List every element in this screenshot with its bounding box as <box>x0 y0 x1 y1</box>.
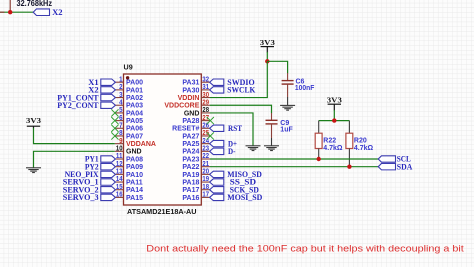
svg-text:23: 23 <box>202 146 209 153</box>
chip U9 pin-1 dot <box>126 76 129 79</box>
chip U9 body <box>124 74 202 205</box>
pin 30 (VDDIN) of U9 <box>178 92 210 102</box>
pin 18 (PA17) of U9 <box>182 184 210 194</box>
svg-text:PA18: PA18 <box>182 179 199 186</box>
port X1 <box>88 77 115 87</box>
svg-text:PA16: PA16 <box>182 195 199 202</box>
svg-text:8: 8 <box>119 130 123 137</box>
svg-text:5: 5 <box>119 107 123 114</box>
port SWCLK <box>210 85 256 95</box>
svg-text:SWCLK: SWCLK <box>227 85 255 95</box>
svg-text:VDDANA: VDDANA <box>126 141 156 148</box>
port SERVO_1 <box>63 177 116 187</box>
svg-text:PA30: PA30 <box>182 87 199 94</box>
svg-text:PA24: PA24 <box>182 149 199 156</box>
svg-text:2: 2 <box>119 84 123 91</box>
capacitor C9 <box>266 113 278 138</box>
svg-text:16: 16 <box>116 192 123 199</box>
svg-text:SERVO_3: SERVO_3 <box>63 192 99 202</box>
svg-text:VDDCORE: VDDCORE <box>164 103 199 110</box>
port SERVO_2 <box>63 184 116 194</box>
pin 1 (PA00) of U9 <box>115 76 143 86</box>
port SCL <box>378 154 411 164</box>
wire SDA (pin 21 PA22) <box>210 166 379 168</box>
wire GND pin 28 <box>210 113 253 141</box>
svg-text:32.768kHz: 32.768kHz <box>17 0 53 8</box>
svg-text:PA07: PA07 <box>126 133 143 140</box>
svg-text:PY2_CONT: PY2_CONT <box>57 100 99 110</box>
power port 3V3 (left) <box>26 116 41 126</box>
svg-text:PA22: PA22 <box>182 164 199 171</box>
svg-text:PA25: PA25 <box>182 141 199 148</box>
no-connect X pin 25 <box>207 132 214 139</box>
capacitor C6 <box>282 73 294 97</box>
wire 3V3 to C6 <box>267 61 287 73</box>
pin 15 (PA14) of U9 <box>115 184 143 194</box>
svg-text:X2: X2 <box>52 7 63 17</box>
svg-text:10: 10 <box>116 146 123 153</box>
port PY1 <box>85 154 116 164</box>
svg-text:Dont actually need the 100nF c: Dont actually need the 100nF cap but it … <box>146 244 464 255</box>
svg-text:PA00: PA00 <box>126 80 143 87</box>
svg-text:20: 20 <box>202 169 209 176</box>
svg-text:3: 3 <box>119 92 123 99</box>
crystal pin stub from left <box>0 11 5 13</box>
port MOSI_SD <box>210 192 263 202</box>
svg-text:U9: U9 <box>124 62 133 71</box>
svg-text:R20: R20 <box>354 138 367 145</box>
port RST <box>210 123 243 133</box>
svg-text:11: 11 <box>116 153 123 160</box>
svg-text:PA31: PA31 <box>182 80 199 87</box>
junction SCL/R22 <box>317 157 321 161</box>
wire 3V3 to VDDIN pin 30 <box>210 61 267 97</box>
pin 5 (PA04) of U9 <box>115 107 143 117</box>
pin 6 (PA05) of U9 <box>115 115 143 125</box>
power port 3V3 (middle) <box>260 38 275 47</box>
svg-text:24: 24 <box>202 138 209 145</box>
port SS_SD <box>210 177 256 187</box>
pin 29 (VDDCORE) of U9 <box>164 99 210 109</box>
svg-text:GND: GND <box>126 149 142 156</box>
pin 20 (PA19) of U9 <box>182 169 210 179</box>
port SWDIO <box>210 77 255 87</box>
svg-text:RST: RST <box>228 123 242 133</box>
pin 13 (PA10) of U9 <box>115 169 143 179</box>
junction SDA/R20 <box>347 164 351 168</box>
pin 17 (PA16) of U9 <box>182 192 210 202</box>
svg-text:PA03: PA03 <box>126 103 143 110</box>
resistor R20 <box>346 121 353 166</box>
junction 3V3/C6 <box>265 59 269 63</box>
svg-text:19: 19 <box>202 176 209 183</box>
svg-text:PA06: PA06 <box>126 126 143 133</box>
svg-text:26: 26 <box>202 122 209 129</box>
junction pullup rail <box>332 118 336 122</box>
wire SCL (pin 22 PA23) <box>210 158 379 160</box>
svg-text:4: 4 <box>119 99 123 106</box>
pin 9 (VDDANA) of U9 <box>115 138 156 148</box>
port X2 (top left) <box>33 7 62 17</box>
svg-text:PA04: PA04 <box>126 110 143 117</box>
pin 23 (PA24) of U9 <box>182 146 210 156</box>
no-connect X pin 8 <box>111 132 118 139</box>
svg-text:28: 28 <box>202 107 209 114</box>
ground (left) <box>26 163 41 173</box>
wire 3V3 to VDDANA <box>34 126 115 143</box>
pin 11 (PA08) of U9 <box>115 153 143 163</box>
pin 2 (PA01) of U9 <box>115 84 143 94</box>
svg-text:18: 18 <box>202 184 209 191</box>
wire 3V3 right stem <box>333 104 335 120</box>
ground (pin 28) <box>246 141 261 151</box>
svg-text:PA01: PA01 <box>126 87 143 94</box>
crystal Y pin (vertical lead) <box>9 0 11 12</box>
pin 19 (PA18) of U9 <box>182 176 210 186</box>
pin 27 (PA28) of U9 <box>182 115 210 125</box>
svg-text:PA27: PA27 <box>182 133 199 140</box>
svg-text:12: 12 <box>116 161 123 168</box>
svg-text:R22: R22 <box>323 138 336 145</box>
port SDA <box>378 161 413 171</box>
pin 10 (GND) of U9 <box>115 146 142 156</box>
pin 14 (PA11) of U9 <box>115 176 143 186</box>
port SCK_SD <box>210 184 259 194</box>
svg-text:PA02: PA02 <box>126 95 143 102</box>
svg-text:3V3: 3V3 <box>260 38 275 47</box>
wire pullup top rail <box>319 120 350 122</box>
pin 4 (PA03) of U9 <box>115 99 143 109</box>
svg-text:PA17: PA17 <box>182 187 199 194</box>
pin 25 (PA27) of U9 <box>182 130 210 140</box>
no-connect X pin 5 <box>111 109 118 116</box>
pin 22 (PA23) of U9 <box>182 153 210 163</box>
pin 24 (PA25) of U9 <box>182 138 210 148</box>
resistor R22 <box>315 121 322 158</box>
svg-text:RESET#: RESET# <box>172 126 199 133</box>
svg-text:PA19: PA19 <box>182 172 199 179</box>
svg-text:VDDIN: VDDIN <box>178 95 200 102</box>
svg-text:PA11: PA11 <box>126 179 143 186</box>
svg-text:4.7kΩ: 4.7kΩ <box>354 145 374 152</box>
svg-text:7: 7 <box>119 122 123 129</box>
wire GND pin 10 <box>34 151 115 163</box>
svg-text:21: 21 <box>202 161 209 168</box>
wire crystal X2 net <box>0 11 34 13</box>
svg-text:D-: D- <box>228 146 236 156</box>
pin 7 (PA06) of U9 <box>115 122 143 132</box>
svg-text:3V3: 3V3 <box>26 116 41 125</box>
wire VDDCORE pin 29 to C9 <box>210 105 272 113</box>
port PY1_CONT <box>57 92 115 102</box>
port PY2 <box>85 161 116 171</box>
pin 28 (GND) of U9 <box>184 107 210 117</box>
pin 8 (PA07) of U9 <box>115 130 143 140</box>
svg-text:PA09: PA09 <box>126 164 143 171</box>
pin 12 (PA09) of U9 <box>115 161 143 171</box>
ground (below C6) <box>280 97 295 110</box>
svg-text:PA10: PA10 <box>126 172 143 179</box>
port D+ <box>210 138 237 148</box>
port NEO_PIX <box>65 169 116 179</box>
svg-text:SDA: SDA <box>397 161 413 171</box>
no-connect X pin 27 <box>207 117 214 124</box>
pin 31 (PA30) of U9 <box>182 84 210 94</box>
svg-text:30: 30 <box>202 92 209 99</box>
svg-text:ATSAMD21E18A-AU: ATSAMD21E18A-AU <box>127 207 197 216</box>
pin 32 (PA31) of U9 <box>182 76 210 86</box>
no-connect X pin 7 <box>111 125 118 132</box>
svg-text:1uF: 1uF <box>280 127 293 134</box>
svg-text:PA08: PA08 <box>126 156 143 163</box>
svg-text:32: 32 <box>202 76 209 83</box>
ground (below C9) <box>264 138 279 151</box>
svg-text:100nF: 100nF <box>295 85 315 92</box>
svg-text:PA15: PA15 <box>126 195 143 202</box>
svg-text:6: 6 <box>119 115 123 122</box>
junction crystal net <box>8 10 12 14</box>
svg-text:4.7kΩ: 4.7kΩ <box>323 145 343 152</box>
pin 3 (PA02) of U9 <box>115 92 143 102</box>
svg-text:GND: GND <box>184 110 200 117</box>
pin 26 (RESET#) of U9 <box>172 122 210 132</box>
port X2 <box>88 85 115 95</box>
port D- <box>210 146 236 156</box>
svg-text:22: 22 <box>202 153 209 160</box>
svg-text:14: 14 <box>116 176 123 183</box>
svg-text:PA14: PA14 <box>126 187 143 194</box>
svg-text:PA28: PA28 <box>182 118 199 125</box>
svg-text:PA23: PA23 <box>182 156 199 163</box>
svg-text:15: 15 <box>116 184 123 191</box>
svg-text:MOSI_SD: MOSI_SD <box>227 192 262 202</box>
port PY2_CONT <box>57 100 115 110</box>
pin 21 (PA22) of U9 <box>182 161 210 171</box>
svg-text:9: 9 <box>119 138 123 145</box>
power port 3V3 (right) <box>327 96 342 105</box>
svg-text:13: 13 <box>116 169 123 176</box>
no-connect X pin 6 <box>111 117 118 124</box>
svg-text:31: 31 <box>202 84 209 91</box>
wire 3V3 middle stem <box>266 47 268 62</box>
svg-text:3V3: 3V3 <box>327 96 342 105</box>
pin 16 (PA15) of U9 <box>115 192 143 202</box>
svg-text:17: 17 <box>202 192 209 199</box>
svg-text:29: 29 <box>202 99 209 106</box>
port MISO_SD <box>210 169 262 179</box>
svg-text:PA05: PA05 <box>126 118 143 125</box>
svg-text:1: 1 <box>119 76 123 83</box>
port SERVO_3 <box>63 192 116 202</box>
